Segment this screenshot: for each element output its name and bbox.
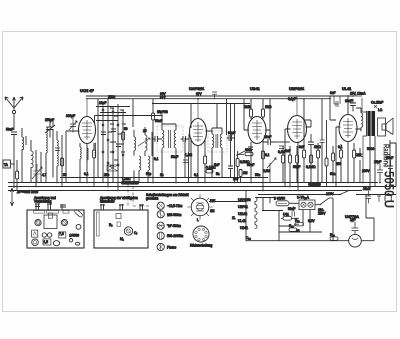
core IFT1 (168, 130, 170, 148)
antenna input coils (16, 118, 64, 191)
wire v322 (321, 99, 323, 183)
svg-text:15pF88: 15pF88 (157, 110, 168, 114)
mid power components (283, 217, 292, 221)
wire tube2 left lead (190, 104, 192, 178)
tube V1 UCH42 (66, 89, 96, 187)
svg-text:50p: 50p (146, 172, 152, 176)
wire h142 (276, 141, 290, 143)
wire v230 top (230, 104, 232, 151)
resistor t4 d (303, 150, 306, 158)
wire t3 top to rail (244, 99, 249, 130)
resistor osc (122, 132, 125, 140)
wire v123 (122, 110, 124, 183)
voltage selector (299, 200, 315, 210)
capacitor IFT1 right (181, 134, 189, 152)
wire heater top (255, 197, 276, 199)
wires outtrafo (353, 96, 371, 183)
wires IFT2 (212, 128, 222, 178)
wire v390 (389, 140, 391, 187)
capacitor coupling 10nF (263, 139, 276, 145)
detector components (228, 138, 253, 183)
svg-text:L: L (197, 218, 199, 222)
wire v103 (102, 106, 104, 183)
wire tube4 bottom (297, 142, 299, 191)
variable cap arrow left (32, 164, 42, 182)
svg-text:0,1: 0,1 (265, 153, 270, 157)
svg-text:50nF: 50nF (155, 119, 162, 123)
svg-text:4,7: 4,7 (42, 173, 47, 177)
svg-text:220V: 220V (326, 192, 334, 196)
svg-text:35nF: 35nF (363, 187, 370, 191)
svg-text:50n: 50n (330, 172, 336, 176)
wire mixer plate to IFT1 (95, 116, 163, 124)
contact ladder osc (108, 108, 126, 166)
svg-text:LΩ: LΩ (378, 108, 383, 112)
wire v108 (107, 99, 109, 187)
main bus wires (8, 96, 396, 195)
wire top rail 96V (86, 95, 352, 97)
wire v62 (61, 135, 63, 187)
resistor x326 (325, 158, 328, 166)
coil L1 (22, 137, 24, 150)
svg-text:7,0: 7,0 (59, 232, 64, 236)
wire v133 top (132, 99, 134, 127)
capacitor IFT2 right (227, 135, 235, 141)
oval box1 bottom (53, 241, 59, 246)
svg-text:150: 150 (336, 162, 342, 166)
wire left block verticals (22, 128, 36, 187)
svg-text:1MΒ: 1MΒ (244, 105, 251, 109)
tube V5 UL41 (332, 87, 362, 187)
svg-text:580-1935m: 580-1935m (167, 234, 183, 238)
wire v162 top (161, 116, 163, 125)
top caps near tube5 (330, 91, 366, 111)
coil L3 (134, 137, 136, 151)
coupling to tube4 (263, 135, 290, 145)
value labels scatter (124, 127, 374, 167)
svg-text:UAF42½: UAF42½ (189, 87, 204, 91)
svg-text:50: 50 (63, 173, 67, 177)
wire v360 short (359, 160, 361, 183)
svg-text:1,5: 1,5 (44, 240, 49, 244)
svg-text:U4770A: U4770A (345, 215, 359, 219)
svg-text:0,5M: 0,5M (263, 169, 270, 173)
svg-text:2L: 2L (232, 216, 236, 220)
rotary switch 2 (190, 226, 213, 248)
svg-text:50: 50 (124, 127, 128, 131)
svg-text:220V: 220V (318, 212, 326, 216)
wire tube4 left lead (285, 129, 291, 187)
wire v41 (40, 152, 42, 183)
small circle box1 r (69, 239, 72, 242)
svg-text:Räderschaltung: Räderschaltung (190, 244, 213, 248)
wire IFT2 top (216, 104, 218, 129)
svg-text:0,1: 0,1 (84, 172, 89, 176)
speaker (378, 108, 394, 136)
resistor 0.1M horizontal (206, 170, 213, 173)
wire tube2 cathode (197, 146, 199, 183)
svg-text:2500: 2500 (108, 95, 115, 99)
coil IFT2 secondary (220, 134, 222, 148)
resistor on bus 1k5 (121, 181, 139, 185)
svg-text:gesehen: gesehen (146, 197, 158, 201)
capacitor below tube3 (248, 147, 253, 149)
resistor t4 a (282, 155, 285, 163)
svg-text:6,3V: 6,3V (308, 219, 315, 223)
svg-text:U-Y9₂₅A: U-Y9₂₅A (297, 196, 310, 200)
contact squares osc (102, 109, 124, 166)
wire bus y177 (60, 177, 268, 179)
resistor left R1 (16, 171, 19, 179)
resistor below tube3 (262, 151, 265, 159)
core IFT2 (216, 134, 218, 148)
output choke coil (356, 108, 363, 131)
svg-text:230V: 230V (362, 169, 370, 173)
svg-text:50n: 50n (255, 173, 261, 177)
double circle box2 (124, 227, 132, 235)
resistor below tube5 b (340, 150, 343, 158)
svg-text:0,1µF: 0,1µF (288, 97, 296, 101)
capacitor power a (292, 206, 295, 217)
fuse (276, 201, 289, 206)
antenna lead wire (13, 114, 15, 130)
wire tube5 top (347, 96, 349, 115)
resistor t4 b (289, 155, 292, 163)
wire top rail segment y103 (152, 103, 250, 105)
ground arrow bottom left (10, 188, 13, 206)
wire tube4 right lead (304, 99, 311, 127)
coil tall left A (46, 127, 47, 153)
wire h112 (100, 112, 126, 114)
jack small (377, 196, 381, 202)
svg-text:0,1: 0,1 (194, 173, 199, 177)
tube V2 UBF42 (185, 87, 216, 183)
svg-text:25p: 25p (104, 173, 110, 177)
coil tall left B (57, 140, 58, 166)
capacitor mid b (320, 140, 325, 142)
svg-text:50nF: 50nF (247, 163, 254, 167)
diagonal elco box1 (74, 209, 83, 218)
wire v46 (45, 153, 47, 183)
wire v226 top (226, 99, 228, 135)
svg-text:"M"-580m: "M"-580m (167, 224, 181, 228)
resistor det 1 (236, 159, 239, 167)
small oval box1 br (75, 242, 79, 245)
svg-text:185-580m: 185-580m (167, 213, 182, 217)
svg-text:5nF: 5nF (214, 163, 220, 167)
svg-text:C₂₄: C₂₄ (246, 236, 252, 240)
svg-text:1nF: 1nF (233, 177, 239, 181)
svg-text:UB41: UB41 (250, 87, 260, 91)
wire tube1 grid left (66, 131, 80, 183)
coil L6 (148, 156, 150, 170)
wire right drop (310, 198, 333, 241)
IF transformer 2 (208, 128, 235, 178)
wire tube5 bottom (347, 142, 349, 183)
capacitor right of tube4 (308, 134, 314, 152)
capacitor c57 (55, 148, 60, 151)
wire tube3 bottom (251, 140, 263, 191)
resistor power extra (289, 228, 297, 231)
small circles mid box1 (42, 233, 46, 237)
svg-text:10nF: 10nF (345, 99, 352, 103)
svg-text:C₇: C₇ (134, 231, 137, 235)
rotary switch 1 (186, 193, 215, 222)
wire v113 (112, 108, 114, 183)
svg-text:M₁: M₁ (120, 237, 124, 241)
wires t4 resistor drops (283, 120, 318, 187)
wire v118 (117, 104, 119, 191)
circle box1 c (76, 224, 81, 229)
capacitor mid a (183, 160, 188, 162)
svg-text:1/4088: 1/4088 (69, 234, 79, 238)
wire fuse to selector (289, 202, 299, 204)
right edge components (362, 140, 396, 187)
70pF box (59, 232, 66, 238)
wire power y232 (279, 231, 310, 233)
wire bus y194 right (258, 194, 396, 196)
svg-text:1n: 1n (160, 173, 164, 177)
wire bus y182 (8, 182, 378, 184)
svg-text:UL41: UL41 (342, 87, 351, 91)
resistor below tube1 (80, 147, 81, 159)
wire v230 (230, 150, 232, 160)
svg-text:300pF: 300pF (66, 114, 75, 118)
svg-text:1MΒ: 1MΒ (265, 105, 272, 109)
oscillator coils (133, 99, 155, 183)
phono jack horseshoe (385, 194, 391, 202)
wire top rail 67V (86, 98, 331, 100)
resistor above tube3 right (262, 109, 265, 117)
stubs on box2 top (100, 204, 144, 210)
coil L2 (31, 151, 33, 168)
wire v185 (184, 138, 186, 178)
resistor r153 (152, 113, 155, 120)
resistor below tube2 (204, 156, 207, 164)
svg-text:B 60/60: B 60/60 (274, 197, 285, 201)
tube V4 UBF42 (278, 87, 321, 191)
wire h120 (96, 120, 118, 122)
svg-text:5000: 5000 (367, 147, 374, 151)
small rects box2 (116, 214, 121, 219)
TA box left edge (3, 160, 11, 168)
svg-text:~13,5-72m: ~13,5-72m (167, 204, 183, 208)
pot circle box1 b (61, 220, 67, 226)
inner rects box1 top row (34, 211, 45, 214)
resistor R20 (330, 237, 338, 240)
bottom rail power (246, 240, 349, 242)
wire bus y190 (8, 190, 362, 192)
wire lamp right (361, 218, 374, 241)
svg-text:ZF=452 kHz: ZF=452 kHz (16, 190, 38, 194)
wires IFT1 (162, 124, 176, 183)
resistor below tube1 b (93, 150, 96, 158)
coil IFT1 primary (162, 130, 164, 148)
resistor r62 (61, 158, 64, 166)
variable cap arrow osc (138, 138, 150, 146)
oscillator section grid (96, 95, 130, 191)
wire power left join (245, 191, 247, 241)
capacitor above lamp (352, 222, 359, 234)
switch on y194 line (340, 191, 356, 195)
capacitor on rail 214 (212, 92, 217, 99)
selector circle column (146, 193, 188, 251)
wire h106 (96, 106, 130, 108)
wire rotary to power (209, 201, 246, 203)
svg-text:KW: KW (210, 199, 215, 203)
wire v326 (326, 120, 328, 187)
svg-text:50nF: 50nF (288, 207, 295, 211)
wire det右 (265, 130, 270, 140)
svg-text:50nF: 50nF (6, 128, 13, 132)
capacitor top b (350, 99, 356, 112)
wires below outtrafo (370, 136, 375, 191)
title vertical (382, 144, 397, 208)
wire tube5 left lead (336, 127, 341, 187)
svg-text:M: M (186, 193, 189, 197)
svg-text:Ca.25nF: Ca.25nF (371, 101, 383, 105)
antenna (5, 97, 38, 206)
power wires grid (262, 198, 310, 241)
trimmer cap pair left (45, 121, 55, 138)
pot arrow volume (267, 158, 276, 183)
wire tube1 cathode (86, 144, 88, 183)
svg-text:67V: 67V (160, 96, 167, 100)
wire v234 top (234, 104, 236, 139)
svg-text:1nF: 1nF (285, 149, 291, 153)
svg-text:Radione: Radione (382, 144, 391, 168)
wire v234 (234, 138, 236, 183)
svg-text:5050 U: 5050 U (382, 171, 397, 208)
capacitor x360 (358, 154, 363, 156)
big inner rect box1 (44, 215, 57, 229)
chassis box 2 (94, 196, 148, 248)
wire v98 (97, 99, 99, 178)
resistor t4 c (296, 155, 299, 163)
capacitor right 50nF (388, 160, 393, 187)
svg-text:50nF: 50nF (171, 155, 178, 159)
coil IFT2 primary (212, 134, 214, 148)
pot circle box1 a (35, 220, 41, 226)
power supply section (238, 191, 374, 248)
capacitor grid tube1 (69, 118, 77, 133)
wire tube2 plate to IFT2 (206, 131, 213, 134)
svg-text:UCH 4F: UCH 4F (80, 89, 94, 93)
label row (42, 172, 336, 177)
svg-text:1,5kΩ: 1,5kΩ (122, 177, 131, 181)
resistor det 2 (239, 170, 242, 177)
capacitor osc a (101, 132, 106, 135)
resistor t4 f (317, 150, 320, 158)
far right small parts (363, 187, 391, 203)
tube V3 UB41 (244, 87, 276, 191)
wire right bits (390, 143, 396, 187)
svg-text:R₂₀: R₂₀ (330, 233, 336, 237)
coil L4 (145, 135, 147, 151)
resistor below tube5 a (332, 153, 335, 161)
capacitor right 25uF (377, 164, 383, 183)
capacitor IFT1 left (152, 132, 162, 156)
trimmer stubs on box1 top (35, 204, 66, 210)
resistor below tube5 c (353, 150, 356, 158)
svg-text:2M: 2M (210, 209, 215, 213)
IF transformer 1 (152, 110, 189, 183)
inner left rect box2 (97, 212, 100, 236)
svg-text:UBF42½: UBF42½ (289, 87, 304, 91)
mains switch (315, 198, 333, 205)
svg-text:25: 25 (143, 129, 147, 133)
misc top connections (13, 92, 391, 191)
extra wires middle (183, 99, 363, 187)
svg-text:Verdrahtung: Verdrahtung (34, 200, 52, 204)
svg-text:1M: 1M (243, 171, 248, 175)
svg-text:18V, 12mA: 18V, 12mA (350, 92, 366, 96)
resistor on bus right (308, 183, 321, 186)
1.5nF box (43, 239, 51, 245)
capacitor 50nF antenna (11, 132, 17, 188)
capacitor osc c (116, 144, 121, 147)
svg-text:0,1: 0,1 (154, 157, 159, 161)
wire bus y186 (8, 186, 396, 188)
svg-text:UBF41: UBF41 (238, 205, 248, 209)
svg-text:8nF: 8nF (299, 145, 305, 149)
cathode resistor tube1 (87, 148, 88, 160)
wires osc coils (134, 127, 148, 183)
svg-text:67V: 67V (196, 92, 203, 96)
svg-text:20pF: 20pF (99, 101, 106, 105)
resistor det 3 horiz (245, 152, 253, 155)
svg-text:0,1: 0,1 (338, 145, 343, 149)
capacitor det (228, 160, 233, 178)
wire v57 (56, 131, 58, 183)
double circle box1 bottom (32, 239, 39, 246)
resistor squiggle right of tube1 (95, 143, 96, 157)
svg-text:Einzelteile: Einzelteile (100, 200, 115, 204)
heater chain bumps (255, 198, 257, 229)
svg-text:UL41: UL41 (238, 219, 246, 223)
output transformer (353, 96, 383, 183)
capacitor top 8nF (334, 96, 340, 107)
svg-text:R₂₁: R₂₁ (295, 219, 300, 223)
svg-text:U41: U41 (283, 213, 289, 217)
wire from selector area down (366, 195, 374, 219)
wire v188 (188, 152, 190, 183)
capacitor 35nF (366, 191, 371, 203)
coil IFT1 secondary (174, 130, 176, 148)
coil L5 (139, 156, 141, 170)
resistor t4 e (310, 155, 313, 163)
wire v330 top (330, 96, 336, 120)
resistor above tube3 left (250, 109, 253, 117)
capacitor t4 mid (279, 146, 284, 148)
svg-text:5n: 5n (216, 172, 220, 176)
switch diagonal det (236, 151, 245, 156)
svg-text:8nF: 8nF (330, 91, 336, 95)
svg-text:UB41: UB41 (240, 226, 248, 230)
wire v53 (52, 120, 54, 178)
scale lamp (349, 234, 362, 247)
wire v270 top (269, 99, 271, 130)
chassis box 1 (27, 196, 84, 248)
switch box with X (107, 165, 118, 171)
M box (32, 230, 38, 237)
svg-text:Phono: Phono (167, 246, 176, 250)
svg-text:R₁₉: R₁₉ (289, 224, 294, 228)
bottom band-switch dashed lines (128, 183, 150, 206)
capacitor osc b (111, 129, 116, 132)
